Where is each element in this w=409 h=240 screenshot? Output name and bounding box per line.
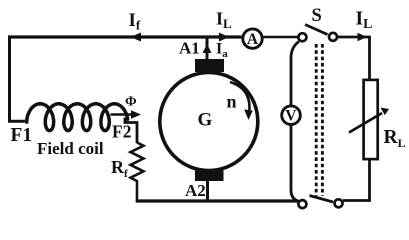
svg-text:Φ: Φ: [125, 95, 137, 110]
wire voltmeter bottom branch: [291, 126, 299, 202]
wire top horizontal: [8, 35, 242, 38]
brush A1 (top): [195, 59, 224, 72]
wire ammeter to switch: [264, 36, 299, 39]
generator circle G: [160, 73, 258, 171]
rotation arrow n: [230, 82, 249, 114]
switch bottom blade: [310, 196, 334, 203]
switch bottom pole: right terminal: [335, 199, 343, 207]
resistor Rf zigzag: [131, 143, 144, 202]
switch S top blade: [305, 25, 328, 35]
load resistor RL box: [364, 80, 378, 159]
switch S top pole: right terminal: [329, 33, 337, 41]
wire left vertical: [10, 36, 25, 122]
svg-text:V: V: [285, 108, 297, 125]
switch bottom pole: left terminal: [298, 200, 306, 208]
svg-text:IL: IL: [356, 9, 373, 33]
arrow IL right side: [358, 33, 368, 42]
junction dot bottom: [294, 199, 298, 203]
svg-text:If: If: [129, 10, 141, 33]
wire bottom horizontal: [136, 199, 298, 202]
svg-text:F1: F1: [11, 125, 33, 146]
wire coil exit step to Rf: [125, 118, 137, 144]
svg-text:F2: F2: [112, 122, 131, 142]
wire RL bottom to switch: [343, 159, 370, 201]
ammeter A: [243, 29, 262, 48]
svg-text:Field coil: Field coil: [37, 139, 104, 158]
variable arrow through RL: [349, 113, 382, 133]
switch S top pole: left terminal: [298, 33, 306, 41]
wire A2 to bottom wire: [206, 180, 209, 201]
arrow IL (right) on top wire: [219, 33, 229, 42]
wire voltmeter top branch: [291, 42, 299, 106]
svg-text:IL: IL: [216, 9, 232, 32]
arrow If (left) on top wire: [131, 33, 142, 42]
svg-text:G: G: [198, 110, 213, 131]
arrow phi (right): [111, 113, 134, 116]
wire A1 to top wire: [206, 36, 209, 60]
brush A2 (bottom): [195, 170, 224, 181]
voltmeter V: [282, 106, 301, 125]
svg-text:n: n: [227, 92, 237, 112]
svg-text:A2: A2: [185, 181, 206, 200]
svg-text:RL: RL: [384, 127, 406, 150]
switch linkage dashed line 1: [315, 44, 318, 196]
svg-text:Rf: Rf: [111, 157, 128, 180]
svg-text:S: S: [312, 6, 322, 26]
arrow Ia (up): [203, 44, 212, 53]
wire switch to load corner + down: [338, 37, 370, 80]
svg-text:Ia: Ia: [216, 41, 228, 61]
svg-text:A: A: [247, 31, 259, 48]
field coil L: [27, 104, 128, 131]
svg-text:A1: A1: [179, 39, 200, 58]
switch linkage dashed line 2: [321, 44, 324, 196]
